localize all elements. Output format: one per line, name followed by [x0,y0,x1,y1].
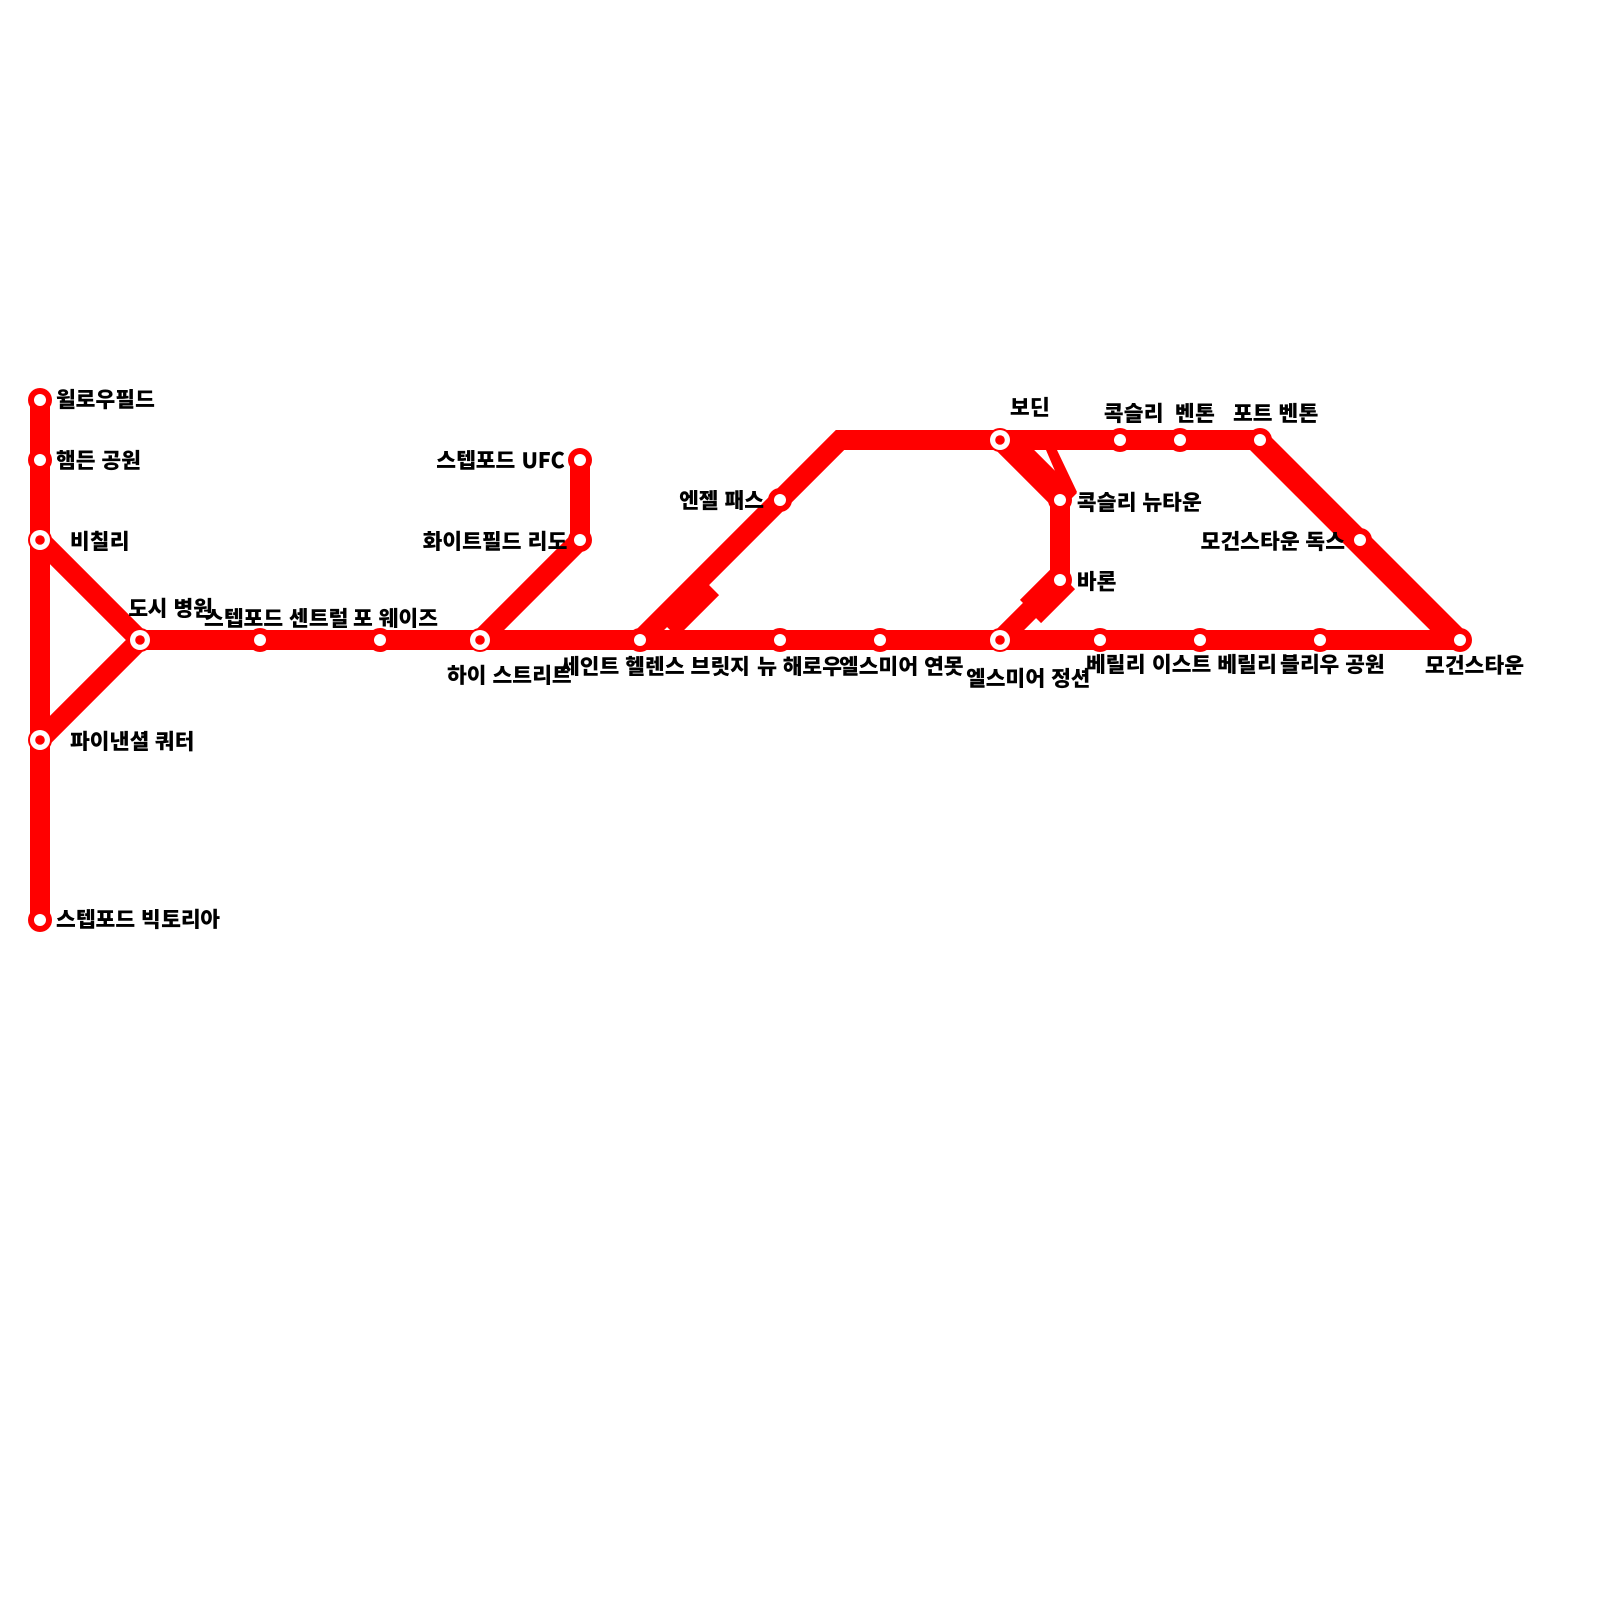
station 모건스타운 독스 [1348,528,1372,552]
svg-text:스텝포드 센트럴: 스텝포드 센트럴 [204,602,348,633]
svg-text:바론: 바론 [1077,565,1117,596]
svg-text:벤톤: 벤톤 [1175,397,1215,428]
svg-text:엔젤 패스: 엔젤 패스 [679,484,764,515]
svg-text:이스트 베릴리: 이스트 베릴리 [1152,648,1277,679]
svg-text:비칠리: 비칠리 [70,525,129,556]
svg-text:베릴리: 베릴리 [1086,648,1145,679]
station 바론 [1048,568,1072,592]
svg-text:하이 스트리트: 하이 스트리트 [447,659,572,690]
wire St Helens Bridge diagonal second track overlay [670,588,712,630]
station 콕슬리 뉴타운 [1048,488,1072,512]
wire Port Benton - Morganstown Docks - Morganstown diagonal [1257,440,1457,640]
wire Barren - Elsmere Junction second track overlay left [1027,577,1057,607]
station 햄든 공원 [28,448,52,472]
svg-text:세인트 헬렌스 브릿지: 세인트 헬렌스 브릿지 [560,650,750,681]
wire Bodin - Coxly Newtown second track overlay [1010,440,1070,500]
svg-text:모건스타운 독스: 모건스타운 독스 [1201,525,1346,556]
station 콕슬리 [1108,428,1132,452]
station 모건스타운 [1448,628,1472,652]
station 스텝포드 빅토리아 [28,908,52,932]
wire St Helens Bridge - Angel Pass - Bodin - Port Benton top line [640,440,1260,640]
svg-text:햄든 공원: 햄든 공원 [56,444,141,475]
svg-text:화이트필드 리도: 화이트필드 리도 [423,525,567,556]
station 도시 병원 [128,628,152,652]
svg-text:도시 병원: 도시 병원 [128,592,213,623]
station 이스트 베릴리 [1188,628,1212,652]
wire Stepford Victoria - Willowfield vertical line [30,400,50,920]
station 보딘 [988,428,1012,452]
svg-text:포트 벤톤: 포트 벤톤 [1233,397,1318,428]
station 벤톤 [1168,428,1192,452]
svg-text:모건스타운: 모건스타운 [1425,649,1524,680]
svg-text:뉴 해로우: 뉴 해로우 [757,650,842,681]
svg-text:포 웨이즈: 포 웨이즈 [353,602,438,633]
svg-text:엘스미어 연못: 엘스미어 연못 [839,650,964,681]
station 포 웨이즈 [368,628,392,652]
station 윌로우필드 [28,388,52,412]
station 뉴 해로우 [768,628,792,652]
wire main horizontal line City Hospital - Morganstown [140,630,1460,650]
wire Bodin - Coxly Newtown - Barren - Elsmere Junction connector [1000,440,1060,640]
wire Barren - Elsmere Junction second track overlay right [1034,582,1068,616]
station 포트 벤톤 [1248,428,1272,452]
station 블리우 공원 [1308,628,1332,652]
station 하이 스트리트 [468,628,492,652]
station 세인트 헬렌스 브릿지 [628,628,652,652]
station 화이트필드 리도 [568,528,592,552]
station 베릴리 [1088,628,1112,652]
svg-text:블리우 공원: 블리우 공원 [1280,648,1385,679]
svg-text:스텝포드 UFC: 스텝포드 UFC [436,444,565,475]
wire Beechley - City Hospital - Financial Quarter triangle [40,540,140,740]
station 엘스미어 정션 [988,628,1012,652]
station 엘스미어 연못 [868,628,892,652]
station 엔젤 패스 [768,488,792,512]
station 스텝포드 센트럴 [248,628,272,652]
svg-text:엘스미어 정션: 엘스미어 정션 [966,662,1091,693]
svg-text:콕슬리: 콕슬리 [1104,397,1163,428]
svg-text:콕슬리 뉴타운: 콕슬리 뉴타운 [1077,486,1202,517]
svg-text:파이낸셜 쿼터: 파이낸셜 쿼터 [70,725,195,756]
wire High Street - Whitefield Lido - Stepford UFC branch [480,460,580,640]
station 스텝포드 UFC [568,448,592,472]
station 파이낸셜 쿼터 [28,728,52,752]
wire Bodin junction outer track sliver [1046,450,1077,492]
svg-text:윌로우필드: 윌로우필드 [56,383,155,414]
station 비칠리 [28,528,52,552]
svg-text:스텝포드 빅토리아: 스텝포드 빅토리아 [56,903,220,934]
svg-text:보딘: 보딘 [1010,391,1050,422]
